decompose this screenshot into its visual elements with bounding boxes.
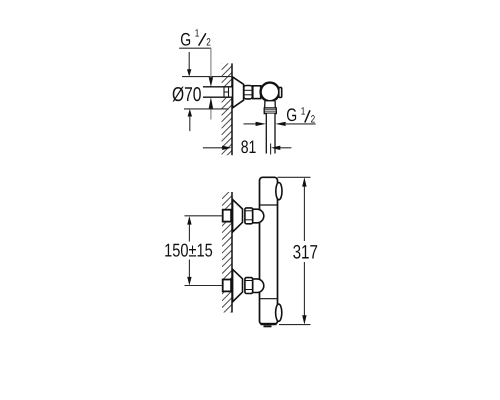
lower knob ellipse xyxy=(276,304,282,321)
arrow up to bottom reference line xyxy=(188,109,192,131)
down pipe xyxy=(266,114,275,154)
right nub xyxy=(279,87,282,97)
arrow to escutcheon top line xyxy=(187,52,191,77)
svg-text:G: G xyxy=(180,29,191,49)
escutcheon bottom reference line xyxy=(184,108,229,110)
dimension 81 left arrow xyxy=(203,146,232,150)
svg-text:81: 81 xyxy=(241,137,257,157)
150 dimension extension lines xyxy=(185,216,223,286)
bar bottom edge thick xyxy=(261,323,277,325)
svg-text:317: 317 xyxy=(293,242,318,264)
svg-text:1: 1 xyxy=(195,28,200,40)
upper union nut xyxy=(245,208,253,224)
valve body circle xyxy=(261,83,280,102)
G1/2 right underline xyxy=(286,123,316,125)
outlet nut xyxy=(264,108,276,114)
label G1/2 (top) xyxy=(180,28,211,50)
upper concealed union box xyxy=(223,210,231,222)
wall hatching (front view) xyxy=(222,182,232,321)
hex nut (side view) xyxy=(244,86,253,99)
317 dimension extension lines xyxy=(278,177,311,324)
escutcheon cone (side view) xyxy=(233,77,244,108)
upper knob ellipse xyxy=(276,183,282,200)
escutcheon top reference line xyxy=(182,76,232,78)
svg-text:150±15: 150±15 xyxy=(164,240,213,261)
lower union cap xyxy=(253,279,264,293)
label G1/2 (right) xyxy=(286,105,315,126)
150 dimension line with arrows xyxy=(187,216,191,286)
lower concealed union box xyxy=(223,280,231,292)
svg-text:2: 2 xyxy=(206,36,211,48)
grey leader from G1/2 to pipe xyxy=(209,48,213,87)
bar top divider xyxy=(260,204,278,206)
svg-text:1: 1 xyxy=(301,105,306,117)
G1/2 underline leader xyxy=(179,47,211,49)
supply pipe through wall xyxy=(203,87,233,97)
svg-text:Ø70: Ø70 xyxy=(172,84,201,106)
wall hatching (side view) xyxy=(222,53,233,161)
bar bottom divider xyxy=(260,298,278,300)
pipe centre extension tick xyxy=(270,144,272,155)
thermostat bar body xyxy=(260,177,278,324)
outlet neck below circle xyxy=(265,101,275,108)
lower escutcheon cone (front) xyxy=(233,269,243,302)
cylinder section xyxy=(253,86,261,99)
bottom outlet tick xyxy=(264,325,272,327)
dimension 81 right arrow xyxy=(271,146,292,150)
wall line (side view) xyxy=(231,63,233,155)
317 dimension line with arrows xyxy=(302,177,306,324)
Ø70 lower arrow on pipe xyxy=(209,97,213,119)
upper escutcheon cone (front) xyxy=(233,200,243,233)
svg-text:G: G xyxy=(286,105,297,125)
wall line (front view) xyxy=(231,192,233,313)
G1/2 arrow pair on down pipe xyxy=(244,122,286,126)
lower union nut xyxy=(245,278,253,294)
upper union cap xyxy=(253,209,264,223)
